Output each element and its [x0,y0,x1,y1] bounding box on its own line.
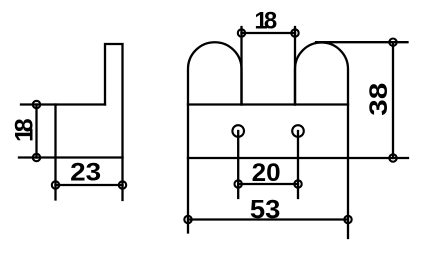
terminator circle dim53 left [184,216,191,223]
terminator circle dim38 bottom [389,154,396,161]
front view: plate bottom edge + extension right for dim 38 (y=158) [188,157,408,159]
svg-text:20: 20 [252,159,281,187]
front view: right hole center line extension down (x=298) [297,131,299,198]
hole left (front view) [232,125,244,137]
terminator circle dim20 right [294,180,301,187]
dimension line 18 (left view, vertical at x=36.5) [35,105,37,158]
terminator circle dim18 left bottom [33,154,40,161]
front view: right arch outline + right edge extension down (x=348) [295,43,348,239]
svg-text:8: 8 [264,8,277,35]
terminator circle dim53 right [344,216,351,223]
dimension line 53 (front view, y=219.5) [188,218,348,220]
svg-text:38: 38 [365,83,393,116]
left view: prong outline (vertical bar of L, top at y=44) [105,44,123,200]
dimension line 38 (front view, vertical at x=393) [392,42,394,158]
hole right (front view) [292,125,304,137]
terminator circle dim18top left [238,29,245,36]
terminator circle dim38 top [389,39,396,46]
dimension line 18 top (front view, y=33) [242,32,296,34]
terminator circle dim23 right [119,181,126,188]
front view: left arch outline + left edge extension down (x=188) [188,42,242,232]
front view: apex tangent extension line for dim 38 (y=42.2) [316,41,408,43]
svg-text:53: 53 [250,194,281,224]
left view: top edge of base with extension line to left (y=104.5) [21,103,105,105]
front view: plate top edge (y=104.5) [188,103,348,105]
dimension line 23 (left view, horizontal at y=185) [56,184,123,186]
front view: left arch inner edge + extension up for dim 18 (x=241.5) [240,27,242,105]
svg-text:8: 8 [11,118,39,132]
terminator circle dim20 left [235,180,242,187]
svg-text:23: 23 [70,159,101,187]
terminator circle dim18 left top [33,101,40,108]
label 18 (left view, rotated) [11,118,39,142]
terminator circle dim23 left [52,181,59,188]
front view: right arch inner edge + extension up for dim 18 (x=295) [294,27,296,105]
dimension line 20 (front view, y=184) [238,183,298,185]
left view: left edge of base + extension down for dim 23 (x=55.5) [54,105,56,200]
front view: left hole center line extension down (x=238.2) [237,131,239,198]
terminator circle dim18top right [291,29,298,36]
left view: bottom edge of part with extension to left (y=157.5) [19,156,123,158]
